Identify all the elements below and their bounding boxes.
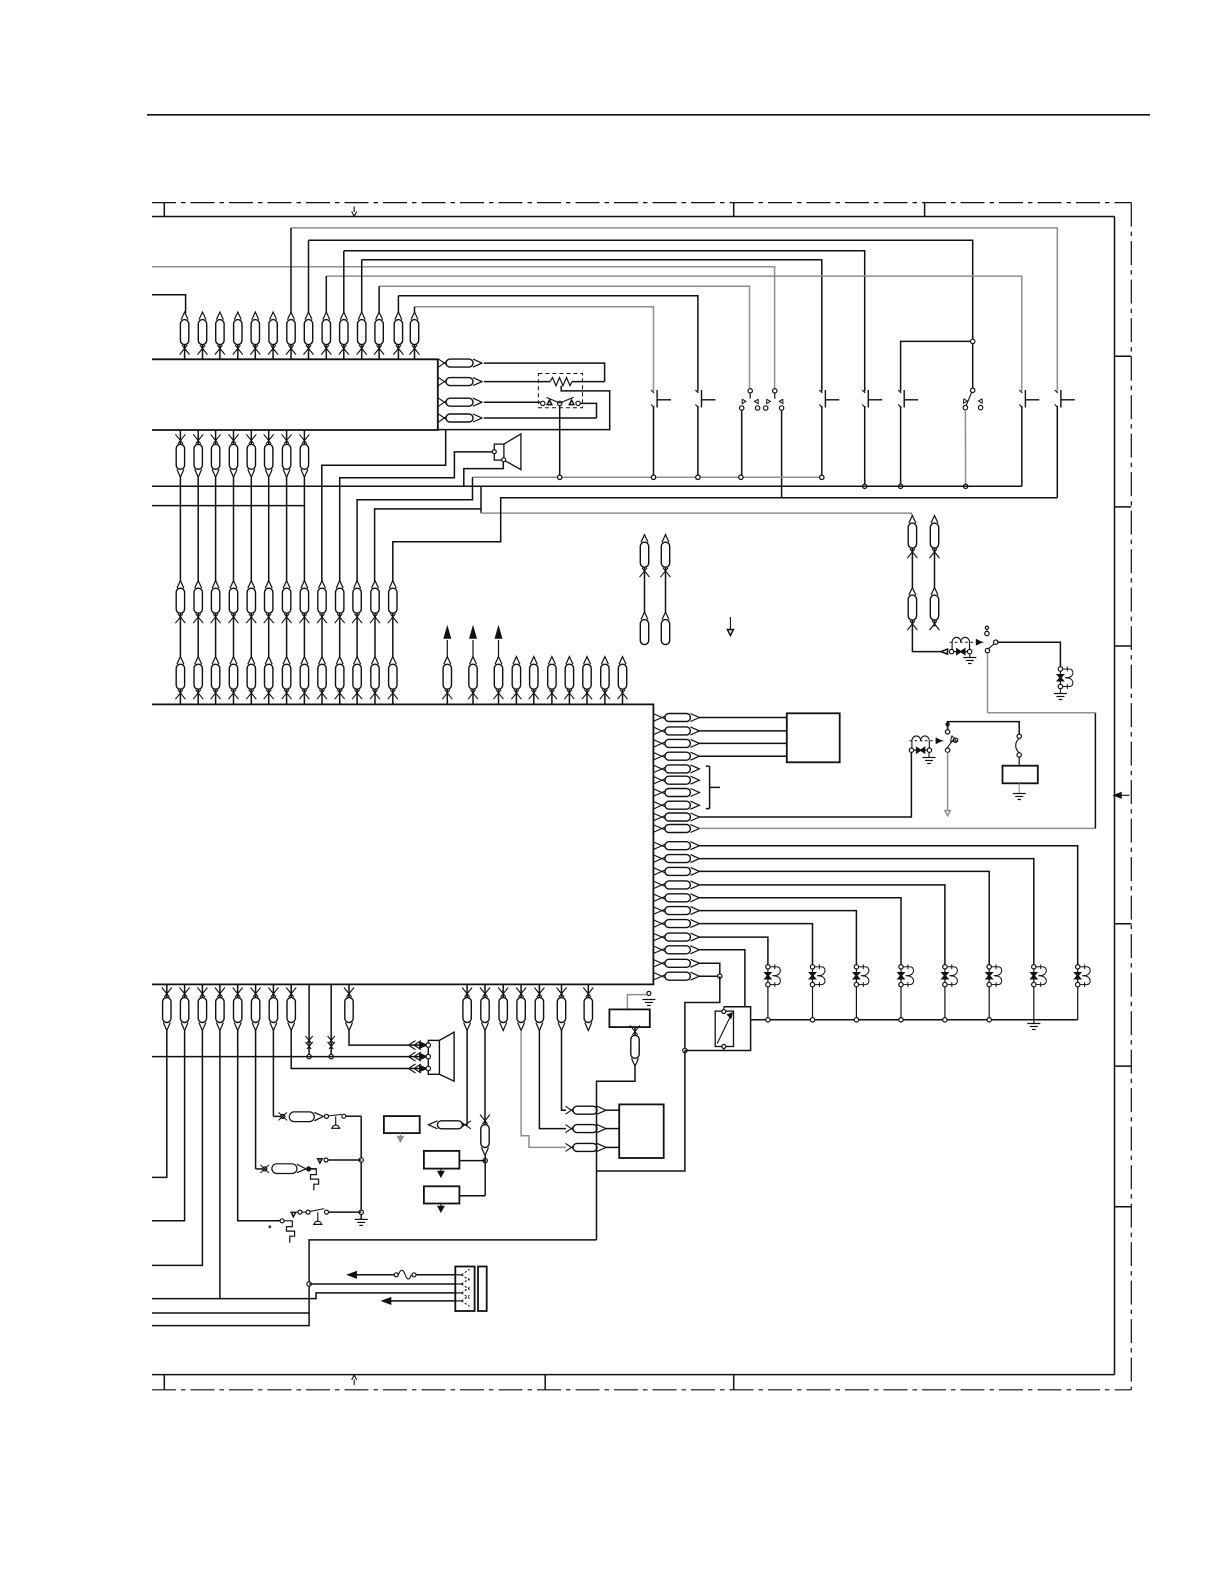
border tick top-mid — [733, 203, 735, 217]
pin IC2-out1 — [439, 359, 448, 365]
node bottom net — [307, 1282, 311, 1286]
wire SW6 top link — [901, 341, 973, 391]
connector pin CN3-4 — [230, 581, 237, 589]
arrow marker right y795 — [1118, 794, 1130, 796]
pin IC1-14 — [653, 881, 666, 887]
wire R1 right lead — [572, 381, 605, 383]
connector pin CN1-4 — [234, 312, 241, 320]
wire osc1 out — [346, 1115, 361, 1117]
ferrite bead FB2 — [911, 749, 929, 751]
bottom rail wire — [152, 1374, 1115, 1376]
node SW4-gnd — [820, 475, 824, 479]
wire CN6-1 drop — [152, 1031, 167, 1178]
connector pin CN2-4 — [233, 430, 235, 444]
wire SP1 t2 drop — [464, 462, 504, 486]
wire CN3-5 link — [250, 620, 252, 657]
border tick right y1066 — [1115, 1065, 1132, 1067]
connector pin CN1-5 — [252, 312, 259, 320]
wire CN3-9 link — [321, 620, 323, 657]
wire pin20 lead — [699, 963, 719, 976]
pin IC1-9 — [653, 813, 666, 819]
connector pin CN4-13 — [389, 657, 396, 665]
wire B5-1 — [606, 1109, 619, 1111]
connector pin CN7-7 — [587, 984, 589, 997]
wire LC ground bus — [751, 1019, 1078, 1021]
connector pin CN5-2 — [470, 657, 477, 665]
jumper J1 — [1017, 734, 1021, 738]
varistor TH1 — [715, 1011, 733, 1046]
wire IC2 pin2 lead — [484, 381, 550, 383]
connector pin CN7-3 — [502, 984, 504, 997]
pin IC1-12 — [653, 855, 666, 861]
connector pin CN5-6 — [548, 657, 555, 665]
border tick top-left — [163, 203, 165, 217]
bottom dash-dot border — [152, 1389, 1131, 1391]
wire stub col8 — [308, 240, 310, 313]
wire CN3-6 link — [268, 620, 270, 657]
capacitor osc1 stub — [335, 1116, 337, 1125]
arrow into speaker — [409, 1041, 416, 1050]
pin IC1-13 — [653, 867, 666, 873]
wire G2 tail gray — [947, 752, 949, 810]
wire CN3-11 link — [356, 620, 358, 657]
wire pin17 to filter — [699, 924, 812, 965]
pin IC1-16 — [653, 907, 666, 913]
node SW1-gnd — [651, 475, 655, 479]
terminal X1 out — [325, 1114, 329, 1118]
connector pin CN1-12 — [376, 312, 383, 320]
border tick bottom-mid — [544, 1375, 546, 1390]
terminal X3 out — [307, 1167, 311, 1171]
switch G2 arm — [947, 739, 953, 747]
top dash-dot border — [152, 202, 1131, 204]
wire pin21 lead — [699, 975, 719, 977]
connector pin CN4-11 — [354, 657, 361, 665]
connector pin CN6-9 — [348, 984, 350, 997]
node SW6-S2 — [971, 339, 975, 343]
wire stub col7 — [290, 228, 292, 313]
zigzag stub X3 — [311, 1169, 319, 1190]
wire L7 to bus — [1033, 987, 1035, 1020]
speaker SP1 terminal 1 — [492, 450, 496, 454]
connector pin CN2-3 — [215, 430, 217, 444]
connector pin CN5-8 — [584, 657, 591, 665]
pin B5-1 — [566, 1106, 575, 1112]
pin IC1-15 — [653, 894, 666, 900]
connector pin CN4-6 — [265, 657, 272, 665]
wire riser x481 — [480, 486, 482, 513]
switch S4 arm — [310, 1209, 324, 1212]
wire IC2 pin4 lead — [484, 417, 597, 419]
wire osc2 contact — [328, 1159, 361, 1161]
wire L6 to bus — [988, 987, 990, 1020]
wire bus col8 net — [309, 240, 973, 388]
wire CN7-6 drop — [562, 1031, 567, 1111]
node bus L2 — [810, 1018, 814, 1022]
connector pin CN6-8 — [290, 984, 292, 997]
connector pin CN5-5 — [530, 657, 537, 665]
wire CN7-4 drop gray — [521, 1031, 566, 1148]
wire speaker line C — [291, 1031, 426, 1069]
node SW2-gnd — [696, 475, 700, 479]
wire S1a bottom to gray bus — [741, 410, 743, 477]
wire CN2-2 to CN3 — [197, 477, 199, 580]
connector pin CN1-11 — [358, 312, 365, 320]
connector pin CN5-3 — [495, 657, 502, 665]
wire varistor net to bus — [685, 1020, 751, 1051]
wire S4 stubs — [296, 1211, 298, 1213]
connector pin CN2-2 — [197, 430, 199, 444]
node bus L6 — [987, 1018, 991, 1022]
right dash-dot border — [1130, 203, 1132, 1390]
pin IC1-10 — [653, 825, 666, 831]
wire CN3-1 link — [179, 620, 181, 657]
connector pin CN1-10 — [340, 312, 347, 320]
wire pin14 to filter — [699, 885, 945, 964]
pin IC1-19 — [653, 946, 666, 952]
wire bus col10 net — [344, 251, 865, 392]
wire pin11 to filter — [699, 846, 1077, 965]
connector pin CN1-7 — [288, 312, 295, 320]
switch G1 contacts — [985, 631, 989, 635]
connector pin CN6-4 — [219, 984, 221, 997]
node osc b — [359, 1210, 363, 1214]
wire CN6-6 drop — [255, 1031, 257, 1169]
connector pin pair2 upper — [931, 516, 938, 524]
switch X1 arm — [329, 1114, 342, 1116]
slide switch S2 arm — [966, 392, 972, 405]
node varistor net — [683, 1048, 687, 1052]
border tick right y507 — [1115, 506, 1132, 508]
slide switch S1a — [748, 389, 752, 393]
connector pin CN2-5 — [250, 430, 252, 444]
wire S3 right to pin4 net — [580, 403, 596, 418]
arrow line4 — [383, 1298, 391, 1304]
connector pin CN4-1 — [177, 657, 184, 665]
wire A2 to node — [459, 1160, 485, 1162]
wire varistor feed — [685, 976, 720, 1050]
wire pin9 to bead2 — [699, 752, 911, 817]
connector pin pair upper — [641, 535, 648, 543]
wire L8 to bus — [1077, 987, 1079, 1020]
connector pin CN6-2 — [184, 984, 186, 997]
connector pin CN5-7 — [566, 657, 573, 665]
connector pin CN3-8 — [301, 581, 308, 589]
wire SW4 bottom — [821, 406, 823, 477]
wire bus col14 net — [415, 307, 654, 392]
node S1-gnd — [739, 475, 743, 479]
slide switch S2 flags — [964, 399, 968, 403]
wire pair link — [665, 571, 667, 613]
node S3-gnd — [558, 475, 562, 479]
wire line2 to connector — [309, 1283, 455, 1285]
arrow into bead FB1 — [941, 649, 948, 654]
push switch SW4 — [819, 390, 822, 393]
wire SW5 bottom — [864, 406, 866, 486]
wire G1 to C1 — [998, 642, 1061, 667]
wire pair2 link — [934, 553, 936, 588]
ground filter bus — [1033, 1020, 1035, 1024]
wire riser link gray — [988, 712, 1096, 714]
node bus477 d — [739, 475, 743, 479]
wire long bottom — [152, 1240, 597, 1326]
wire line 1298 step — [152, 1293, 455, 1299]
wire K2 stub — [484, 1156, 486, 1196]
connector pin CN3-7 — [283, 581, 290, 589]
filter L6 — [988, 967, 990, 985]
border tick top-right — [924, 203, 926, 217]
ground FB2 — [928, 752, 930, 757]
ground C1 — [1059, 689, 1061, 694]
node bus477 c — [696, 475, 700, 479]
wire pin16 to filter — [699, 911, 856, 965]
arrow to other sheet — [472, 640, 474, 657]
wire CN7-1 drop — [462, 1031, 467, 1125]
IC block IC2 — [152, 359, 438, 430]
connector pin CN3-1 — [177, 581, 184, 589]
wire B5-2 — [606, 1128, 619, 1130]
connector pin CN4-5 — [248, 657, 255, 665]
filter L3 — [855, 967, 857, 985]
wire CN2-4 to CN3 — [233, 477, 235, 580]
connector pin pair lower — [662, 612, 669, 620]
pin IC1-2 — [653, 727, 666, 733]
wire CN2-1 to CN3 — [179, 477, 181, 580]
border tick bottom-right — [733, 1375, 735, 1390]
node chevron b — [329, 1054, 333, 1058]
wire col11 staircase — [357, 477, 472, 581]
varistor bottom terminal — [722, 1044, 726, 1048]
connector pin CN7-1 — [466, 984, 468, 997]
wire gray link to pair — [481, 513, 911, 515]
pin IC1-20 — [653, 959, 666, 965]
arrow A3 out — [440, 1204, 442, 1209]
wire pin15 to filter — [699, 898, 901, 965]
connector pin CN6-6 — [255, 984, 257, 997]
connector pin CN4-9 — [319, 657, 326, 665]
wire pin10 riser — [1094, 713, 1096, 829]
slide switch S1b — [773, 389, 777, 393]
wire speaker line B — [152, 1056, 427, 1058]
arrow to other sheet — [446, 640, 448, 657]
wire CN6-2 drop — [152, 1031, 185, 1221]
contact osc2 up — [318, 1159, 322, 1163]
connector pin K3 — [634, 1027, 636, 1035]
wire R1 tap path — [438, 386, 610, 430]
wire CN6-5 drop — [238, 1031, 280, 1221]
varistor top terminal — [722, 1010, 726, 1014]
connector pin CN3-5 — [248, 581, 255, 589]
down arrow marker top — [353, 207, 355, 213]
wire IC1 to IC3 — [699, 755, 786, 757]
wire L4 to bus — [900, 987, 902, 1020]
wire CN3-8 link — [303, 620, 305, 657]
wire SW6 bottom — [900, 406, 902, 486]
terminal osc1 — [281, 1114, 285, 1118]
connector pin pair2 lower — [931, 588, 938, 596]
wire switch G1 tail — [987, 653, 989, 713]
pin IC1-4 — [653, 752, 666, 758]
node pin20-21 — [718, 974, 722, 978]
switch S3 triangles — [547, 400, 552, 405]
connector pin CN2-7 — [286, 430, 288, 444]
wire A3 to node — [459, 1195, 485, 1197]
pin IC1-3 — [653, 739, 666, 745]
connector pin CN5-4 — [513, 657, 520, 665]
connector pin CN4-4 — [230, 657, 237, 665]
push switch SW2 — [695, 390, 698, 393]
arrow A2 out — [440, 1169, 442, 1174]
wire IC1 to IC3 — [699, 730, 786, 732]
wire bus B net — [152, 267, 775, 388]
terminal T3 — [647, 991, 651, 995]
wire pin19 to filter bus — [699, 950, 745, 1007]
wire IC1 to IC3 — [699, 742, 786, 744]
wire pin13 to filter — [699, 871, 989, 964]
dot mark — [268, 1225, 271, 1228]
node bus477 a — [558, 475, 562, 479]
connector pin CN1-3 — [216, 312, 223, 320]
pin IC1-21 — [653, 972, 666, 978]
wire S3 center drop — [559, 406, 561, 478]
wire col13 staircase — [393, 498, 1058, 581]
wire SP1 t1 to col10 — [340, 452, 493, 581]
terminal X1 arm — [342, 1114, 346, 1118]
wire L2 to bus — [812, 987, 814, 1020]
connector pin CN1-8 — [305, 312, 312, 320]
wire IC5 loop — [597, 1051, 685, 1172]
wire IC2 pin3 lead — [484, 401, 541, 403]
wire SW8 bottom — [1021, 406, 1023, 486]
connector pin CN7-2 — [484, 984, 486, 997]
connector pin CN1-1 — [181, 312, 188, 320]
connector pin CN7-5 — [538, 984, 540, 997]
push switch SW6 — [898, 390, 901, 393]
node bus477 b — [651, 475, 655, 479]
wire bus col11 net — [362, 260, 822, 392]
wire CN3-4 link — [233, 620, 235, 657]
wire bus col7 net — [291, 228, 1057, 392]
push switch SW8 — [1019, 390, 1022, 393]
wire CN3-7 link — [286, 620, 288, 657]
connector pin CN4-3 — [212, 657, 219, 665]
wire pin10 gray — [699, 827, 1095, 829]
wire stub col9 — [325, 276, 327, 313]
border tick right y646 — [1115, 645, 1132, 647]
wire G2 top link — [948, 722, 1020, 735]
connector pin CN6-7 — [272, 984, 274, 997]
filter L4 — [900, 967, 902, 985]
top rail wire — [152, 216, 1115, 218]
block A1 — [384, 1116, 420, 1133]
connector pin CN3-11 — [354, 581, 361, 589]
node bus L3 — [854, 1018, 858, 1022]
pin B5-2 — [566, 1125, 575, 1131]
wire varistor top — [723, 1007, 725, 1010]
wire SW1 bottom — [653, 406, 655, 477]
connector pin CN2-1 — [179, 430, 181, 444]
connector CN8 shell — [478, 1267, 487, 1312]
wire SW9 bottom — [1056, 406, 1058, 498]
wire CN7-2 drop — [484, 1031, 486, 1119]
border tick right y924 — [1115, 923, 1132, 925]
filter L8 — [1077, 967, 1079, 985]
wire L5 to bus — [944, 987, 946, 1020]
border tick right y356 — [1115, 355, 1132, 357]
push switch SW5 — [862, 390, 865, 393]
capacitor C1 — [1059, 669, 1061, 687]
arrow into speaker — [409, 1052, 416, 1061]
push switch SW1 — [651, 390, 654, 393]
switch G1 arm — [988, 644, 994, 649]
wire CN3-2 link — [197, 620, 199, 657]
connector CN8 body — [455, 1267, 474, 1312]
wire osc2 entry — [256, 1168, 263, 1170]
block A3 — [424, 1186, 460, 1203]
switch S3 arm — [547, 397, 574, 403]
resonator X1 — [289, 1112, 314, 1122]
wire CN3-10 link — [339, 620, 341, 657]
wire pin19 jog — [724, 1007, 751, 1020]
terminal X2 — [280, 1219, 284, 1223]
pin IC2-out4 — [439, 414, 448, 420]
connector pin CN1-14 — [411, 312, 418, 320]
pin IC1-17 — [653, 920, 666, 926]
wire S1b bottom to line499 — [781, 410, 783, 498]
wire X3 stub — [311, 1168, 317, 1170]
connector pin pair upper — [662, 535, 669, 543]
wire IC1 to IC3 — [699, 717, 786, 719]
ground FB1 — [969, 654, 971, 658]
connector pin CN3-13 — [389, 581, 396, 589]
wire L3 to bus — [855, 987, 857, 1020]
wire S4 out — [329, 1211, 362, 1213]
resistor R1 — [550, 378, 572, 386]
connector pin CN6-5 — [237, 984, 239, 997]
wire chevron pin b — [330, 984, 332, 1056]
switch G2 contacts — [945, 730, 949, 734]
wire line4 — [391, 1300, 456, 1302]
ground T3 — [642, 999, 655, 1001]
filter L1 — [767, 967, 769, 985]
wire pair2 link — [911, 553, 913, 588]
pin K1 left capsule — [428, 1121, 437, 1129]
ground osc — [355, 1218, 368, 1220]
switch G2 stem — [946, 723, 949, 726]
filter L7 — [1033, 967, 1035, 985]
connector pin CN3-9 — [319, 581, 326, 589]
arrow test point down — [729, 617, 731, 631]
wire CN3-12 link — [374, 620, 376, 657]
wire bus col12 net — [379, 286, 749, 388]
wire B5-3 — [606, 1146, 619, 1148]
wire CN3-13 link — [392, 620, 394, 657]
wire line486 — [152, 485, 1022, 487]
arrow line1 — [348, 1272, 356, 1278]
wire pin18 to filter — [699, 937, 768, 964]
connector pin CN3-12 — [372, 581, 379, 589]
connector pin CN7-4 — [520, 984, 522, 997]
wire T3 to B3 — [627, 995, 647, 1010]
wire col12 staircase — [375, 509, 481, 581]
connector pin pair2 upper — [909, 516, 916, 524]
connector CN8 pins — [455, 1274, 461, 1276]
connector pin CN5-1 — [444, 657, 451, 665]
wire CN3-3 link — [215, 620, 217, 657]
connector pin CN5-10 — [619, 657, 626, 665]
wire stub col13 — [397, 296, 399, 313]
wire chevron pin a — [308, 984, 310, 1056]
